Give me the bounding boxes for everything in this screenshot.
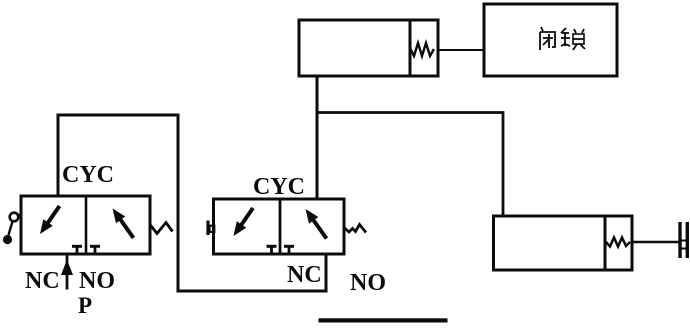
piston rod A1 <box>438 49 484 51</box>
valve V2 body <box>214 199 345 254</box>
svg-text:NC: NC <box>287 262 322 288</box>
valve V1 left-cell flow arrow <box>40 206 60 234</box>
wire: valve V1 CYC loop to valve V2 NO port <box>58 115 326 291</box>
svg-text:NO: NO <box>350 270 386 296</box>
label NO (valve V2) <box>350 270 386 296</box>
cylinder A2 return spring <box>606 238 630 247</box>
valve V1 right-cell flow arrow <box>113 209 134 239</box>
valve V1 body <box>21 196 150 254</box>
valve V1 roller-lever actuator <box>3 213 21 244</box>
wire: cylinder A1 to valve V2 CYC (vertical) <box>316 76 319 199</box>
piston rod A2 <box>632 241 679 244</box>
caption bar (cropped figure rule) <box>319 318 448 322</box>
valve V2 left-cell flow arrow <box>234 208 254 236</box>
svg-text:NO: NO <box>79 268 115 294</box>
hanzi 锁 (drawn strokes) <box>561 28 585 50</box>
label CYC (valve V1) <box>62 162 114 188</box>
label NC (valve V1) <box>25 268 60 294</box>
block: 闭锁 (latch) box <box>484 4 617 76</box>
valve V2 right-cell flow arrow <box>306 209 327 239</box>
rod end anchor bars <box>680 222 687 258</box>
valve V1 pressure supply arrow P <box>61 254 73 290</box>
wire: branch to cylinder A2 <box>317 113 503 217</box>
label NC (valve V2) <box>287 262 322 288</box>
valve V1 return spring <box>150 223 173 234</box>
svg-text:CYC: CYC <box>253 174 305 200</box>
cylinder A2 piston <box>604 216 607 270</box>
cylinder A1 piston <box>409 20 412 76</box>
valve V1 exhaust port T (right) <box>90 246 100 254</box>
svg-text:P: P <box>78 293 92 318</box>
valve V2 exhaust port T (left) <box>267 246 277 254</box>
svg-text:CYC: CYC <box>62 162 114 188</box>
label P (supply) <box>78 293 92 318</box>
label NO (valve V1) <box>79 268 115 294</box>
valve V1 divider <box>85 196 88 254</box>
valve V2 divider <box>279 199 282 254</box>
label CYC (valve V2) <box>253 174 305 200</box>
valve V2 exhaust port T (right) <box>284 246 294 254</box>
valve V2 return spring <box>344 225 366 233</box>
valve V1 exhaust port T (left) <box>72 246 82 254</box>
hanzi 闭 (drawn strokes) <box>540 27 555 50</box>
cylinder A1 body (top single-acting cylinder) <box>299 20 438 76</box>
cylinder A1 return spring <box>411 43 435 56</box>
valve V2 plunger actuator <box>208 221 214 236</box>
svg-text:NC: NC <box>25 268 60 294</box>
cylinder A2 body (bottom single-acting cylinder) <box>494 216 633 270</box>
